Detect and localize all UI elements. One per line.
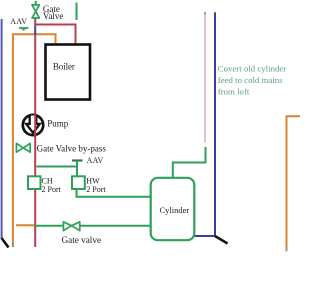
wire: green pipe from pink vent down to cylinder top (173, 147, 206, 178)
wire: orange horizontal to boiler top (12, 34, 56, 44)
svg-text:2 Port: 2 Port (42, 185, 62, 194)
wire: orange left vertical grey tip (12, 242, 14, 247)
pump P1 (23, 115, 43, 135)
gate valve GV2 (by-pass, horizontal bowtie) (16, 143, 30, 152)
wire: orange return left vertical (12, 34, 14, 242)
wire: short dark blue segment on main riser (34, 26, 36, 36)
svg-text:Cylinder: Cylinder (160, 205, 190, 215)
wire: pink vent vertical right side (204, 13, 206, 143)
wire: green horizontal from riser to AAV tee (37, 166, 78, 168)
gate valve GV3 (bottom, horizontal bowtie) (63, 222, 79, 231)
wire: dark blue horizontal to cylinder bottom (194, 235, 216, 237)
svg-text:feed to cold mains: feed to cold mains (218, 75, 283, 85)
node: pink vent top cap (204, 12, 206, 14)
motorised valve HW 2 Port (72, 176, 85, 189)
label: note Covert old cylinder feed to cold mains from loft (218, 64, 286, 97)
svg-text:Gate Valve by-pass: Gate Valve by-pass (37, 143, 107, 153)
wire: red main riser vertical (34, 35, 36, 247)
wire: red horizontal to boiler (34, 25, 75, 45)
wire: red riser over pump (34, 114, 36, 136)
wire: dark blue cold main vertical right side (214, 13, 216, 237)
wire: green vent stub above boiler feed corner (76, 3, 78, 21)
gate valve GV1 (top, vertical hourglass with stem) (32, 1, 39, 18)
wire: green bottom pipe to cylinder (34, 225, 152, 227)
svg-text:AAV: AAV (10, 17, 27, 26)
svg-text:Pump: Pump (47, 119, 69, 129)
svg-text:Covert old cylinder: Covert old cylinder (218, 64, 286, 74)
cylinder (151, 178, 195, 240)
wire: cold feed (blue-violet) left vertical (1, 19, 3, 239)
node: cold main top cap (214, 12, 216, 14)
svg-text:from loft: from loft (218, 86, 250, 96)
AAV tee above HW valve (72, 161, 83, 177)
wire: blue line end diagonal (black) right side (215, 236, 228, 244)
boiler (46, 45, 91, 100)
wire: orange stub into bottom junction (16, 224, 35, 226)
AAV symbol (top-left automatic air vent) (19, 28, 29, 31)
svg-text:2 Port: 2 Port (86, 185, 106, 194)
wire: left blue line end diagonal (black) (2, 238, 9, 248)
svg-text:Valve: Valve (43, 11, 64, 21)
svg-text:Gate valve: Gate valve (62, 235, 102, 245)
svg-text:AAV: AAV (87, 156, 104, 165)
motorised valve CH 2 Port (28, 176, 41, 189)
wire: green pipe HW valve to cylinder (77, 189, 152, 197)
svg-text:Boiler: Boiler (53, 62, 75, 72)
wire: orange far-right riser (287, 116, 301, 248)
wire: right riser grey tip (286, 248, 288, 252)
wire: red flow from gate valve down (upper stub) (34, 19, 36, 26)
